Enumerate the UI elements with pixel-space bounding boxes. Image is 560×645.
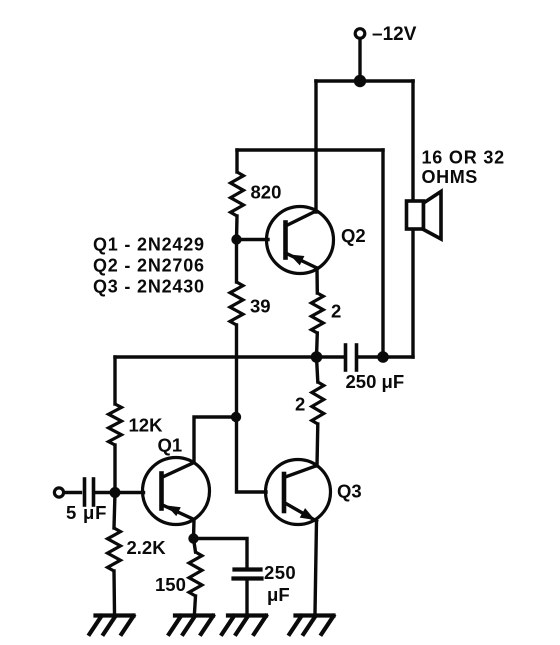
svg-text:OHMS: OHMS (422, 167, 478, 187)
wire cap to input node (96, 491, 116, 494)
wire capacitor to speaker branch (359, 355, 414, 358)
label 16 OR 32 OHMS (422, 148, 505, 188)
ground G2 (169, 616, 213, 635)
wire Q3 emitter to ground (315, 521, 317, 613)
wire emitter node to bypass cap (194, 539, 248, 567)
svg-text:250 μF: 250 μF (346, 371, 405, 392)
svg-text:Q1 - 2N2429: Q1 - 2N2429 (93, 235, 205, 255)
svg-text:250: 250 (264, 562, 296, 583)
wire input to cap (64, 491, 81, 494)
wire 39 top stub (235, 240, 238, 283)
wire bootstrap right drop (381, 150, 384, 357)
label transistor list (93, 235, 205, 297)
wire 820 top stub (235, 150, 238, 172)
wire 150 top stub (194, 539, 196, 553)
capacitor 250uF coupling (346, 345, 357, 370)
wire Q1 emitter stub (192, 520, 196, 539)
node base of Q2 junction (231, 234, 241, 244)
svg-text:12K: 12K (129, 415, 164, 436)
wire 39 bottom long to Q3 base corner (237, 325, 267, 492)
terminal -12V supply (355, 29, 365, 39)
wire Q1 collector up and right (194, 417, 236, 463)
svg-text:39: 39 (250, 296, 271, 317)
resistor 2.2K (108, 528, 121, 571)
node junction at top rail (354, 75, 366, 87)
svg-text:2: 2 (331, 301, 341, 322)
wire speaker branch vertical (411, 81, 414, 357)
resistor 2 upper (311, 293, 323, 333)
svg-text:μF: μF (267, 584, 290, 605)
capacitor 250uF bypass (234, 570, 262, 579)
transistor Q3 (266, 460, 331, 525)
terminal input (54, 488, 63, 497)
node output junction (311, 351, 323, 363)
wire bootstrap horizontal y150 (237, 148, 383, 151)
wire 2.2K to ground (112, 571, 116, 613)
svg-text:Q2: Q2 (341, 225, 366, 246)
ground G1 (90, 616, 134, 635)
svg-text:16 OR 32: 16 OR 32 (422, 148, 505, 168)
svg-text:2.2K: 2.2K (127, 537, 167, 558)
node emitter junction (188, 533, 198, 543)
svg-text:150: 150 (155, 574, 186, 595)
wire lower 2 top stub (317, 357, 318, 382)
svg-text:Q3 - 2N2430: Q3 - 2N2430 (93, 277, 205, 297)
label 250 uF bypass (264, 562, 296, 605)
wire Q2 collector drop (314, 81, 317, 212)
wire Q1 base (115, 491, 144, 494)
wire top rail horizontal (316, 79, 413, 83)
wire 820 bottom stub (235, 216, 239, 240)
resistor 2 lower (312, 382, 324, 424)
svg-text:Q2 - 2N2706: Q2 - 2N2706 (93, 256, 205, 276)
transistor Q1 (143, 458, 210, 525)
wire 150 to ground (195, 596, 196, 613)
resistor 12K (109, 404, 122, 445)
svg-text:2: 2 (295, 394, 305, 415)
svg-text:820: 820 (251, 182, 282, 203)
svg-text:Q1: Q1 (158, 435, 183, 456)
svg-text:5 μF: 5 μF (66, 502, 107, 523)
wire output rail left (bootstrap to 12K) (115, 355, 343, 358)
node Q1 collector junction (231, 412, 241, 422)
speaker LS1 16/32 ohms (407, 192, 442, 240)
ground G3 (222, 616, 266, 635)
wire 2.2K top stub (114, 493, 115, 529)
wire resistor to output node (315, 333, 319, 357)
resistor 39 (230, 282, 243, 325)
wire resistor to Q3 collector (315, 424, 319, 466)
wire Q2 base (237, 238, 269, 241)
svg-text:–12V: –12V (372, 24, 417, 45)
resistor 820 (231, 172, 244, 216)
svg-text:Q3: Q3 (337, 481, 362, 502)
resistor 150 (189, 552, 202, 596)
transistor Q2 (267, 207, 334, 274)
wire terminal to top rail (358, 39, 361, 82)
capacitor 5uF input (85, 479, 94, 505)
ground G4 (290, 616, 334, 635)
wire 12K to input node (113, 445, 116, 493)
wire cap to ground (245, 581, 248, 614)
node capacitor-speaker junction (377, 351, 389, 363)
node input junction (110, 487, 121, 498)
wire Q2 emitter stub (315, 268, 319, 293)
wire 12K branch vertical (113, 357, 116, 404)
